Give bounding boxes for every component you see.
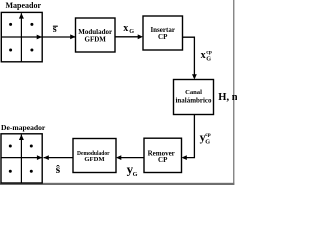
arrowhead into Insertar (138, 34, 143, 39)
label y_G^cp (200, 130, 211, 146)
mapper vertical axis arrowhead (19, 13, 24, 19)
svg-text:G: G (205, 138, 210, 145)
svg-text:x: x (201, 50, 206, 61)
mapper vertical axis (20, 13, 22, 62)
arrowhead into Modulador (70, 34, 75, 39)
svg-text:G: G (133, 171, 138, 178)
arrowhead into Demodulador (116, 155, 121, 160)
wire Canal to Remover (elbow) (183, 115, 194, 158)
demapper vertical axis (20, 135, 22, 183)
arrowhead into Remover (182, 155, 187, 160)
demapper horizontal axis arrowhead (37, 155, 42, 160)
box Insertar CP (143, 16, 183, 50)
demapper horizontal axis (1, 157, 42, 159)
mapper horizontal axis arrowhead (37, 35, 42, 40)
svg-text:De-mapeador: De-mapeador (1, 123, 46, 132)
mapper dot 3 (9, 49, 12, 52)
box Demodulador GFDM (73, 139, 116, 173)
demapper vertical axis arrowhead (19, 135, 24, 141)
label x_G^cp (201, 49, 212, 62)
right page border (233, 0, 234, 184)
svg-text:Mapeador: Mapeador (6, 1, 42, 10)
wire Modulador to Insertar (115, 36, 142, 38)
svg-text:Canal: Canal (185, 89, 202, 96)
svg-text:G: G (206, 56, 211, 63)
svg-text:CP: CP (158, 33, 168, 41)
mapper dot 4 (30, 49, 33, 52)
demapper dot 3 (9, 170, 12, 173)
page background (0, 0, 237, 185)
box Modulador GFDM (76, 18, 116, 52)
demapper constellation box (1, 134, 42, 183)
svg-text:cp: cp (205, 132, 211, 138)
svg-text:GFDM: GFDM (84, 156, 105, 163)
svg-text:H, n: H, n (218, 92, 237, 103)
svg-text:G: G (129, 28, 134, 35)
svg-text:ŝ: ŝ (56, 162, 61, 176)
wire Demodulador to De-mapeador (44, 157, 74, 159)
demapper dot 1 (9, 145, 12, 148)
arrowhead into De-mapeador (44, 155, 49, 160)
svg-text:inalámbrico: inalámbrico (176, 98, 213, 105)
svg-text:CP: CP (158, 156, 168, 164)
mapper constellation box (1, 12, 42, 61)
label x_G (123, 23, 134, 35)
arrowhead into Canal (192, 74, 197, 79)
mapper horizontal axis / wire s (1, 36, 75, 38)
box Canal inalambrico (174, 80, 214, 115)
wire Insertar to Canal (elbow) (183, 37, 195, 78)
label s bar (53, 24, 58, 35)
demapper dot 4 (30, 170, 33, 173)
svg-text:s: s (53, 24, 57, 35)
svg-text:x: x (123, 23, 128, 34)
bottom page border (0, 183, 234, 185)
box Remover CP (144, 138, 182, 172)
label y_G (127, 162, 138, 178)
demapper dot 2 (30, 145, 33, 148)
mapper dot 2 (30, 23, 33, 26)
svg-text:cp: cp (206, 49, 212, 55)
mapper dot 1 (9, 23, 12, 26)
wire Remover to Demodulador (118, 157, 145, 159)
svg-text:GFDM: GFDM (85, 36, 107, 44)
